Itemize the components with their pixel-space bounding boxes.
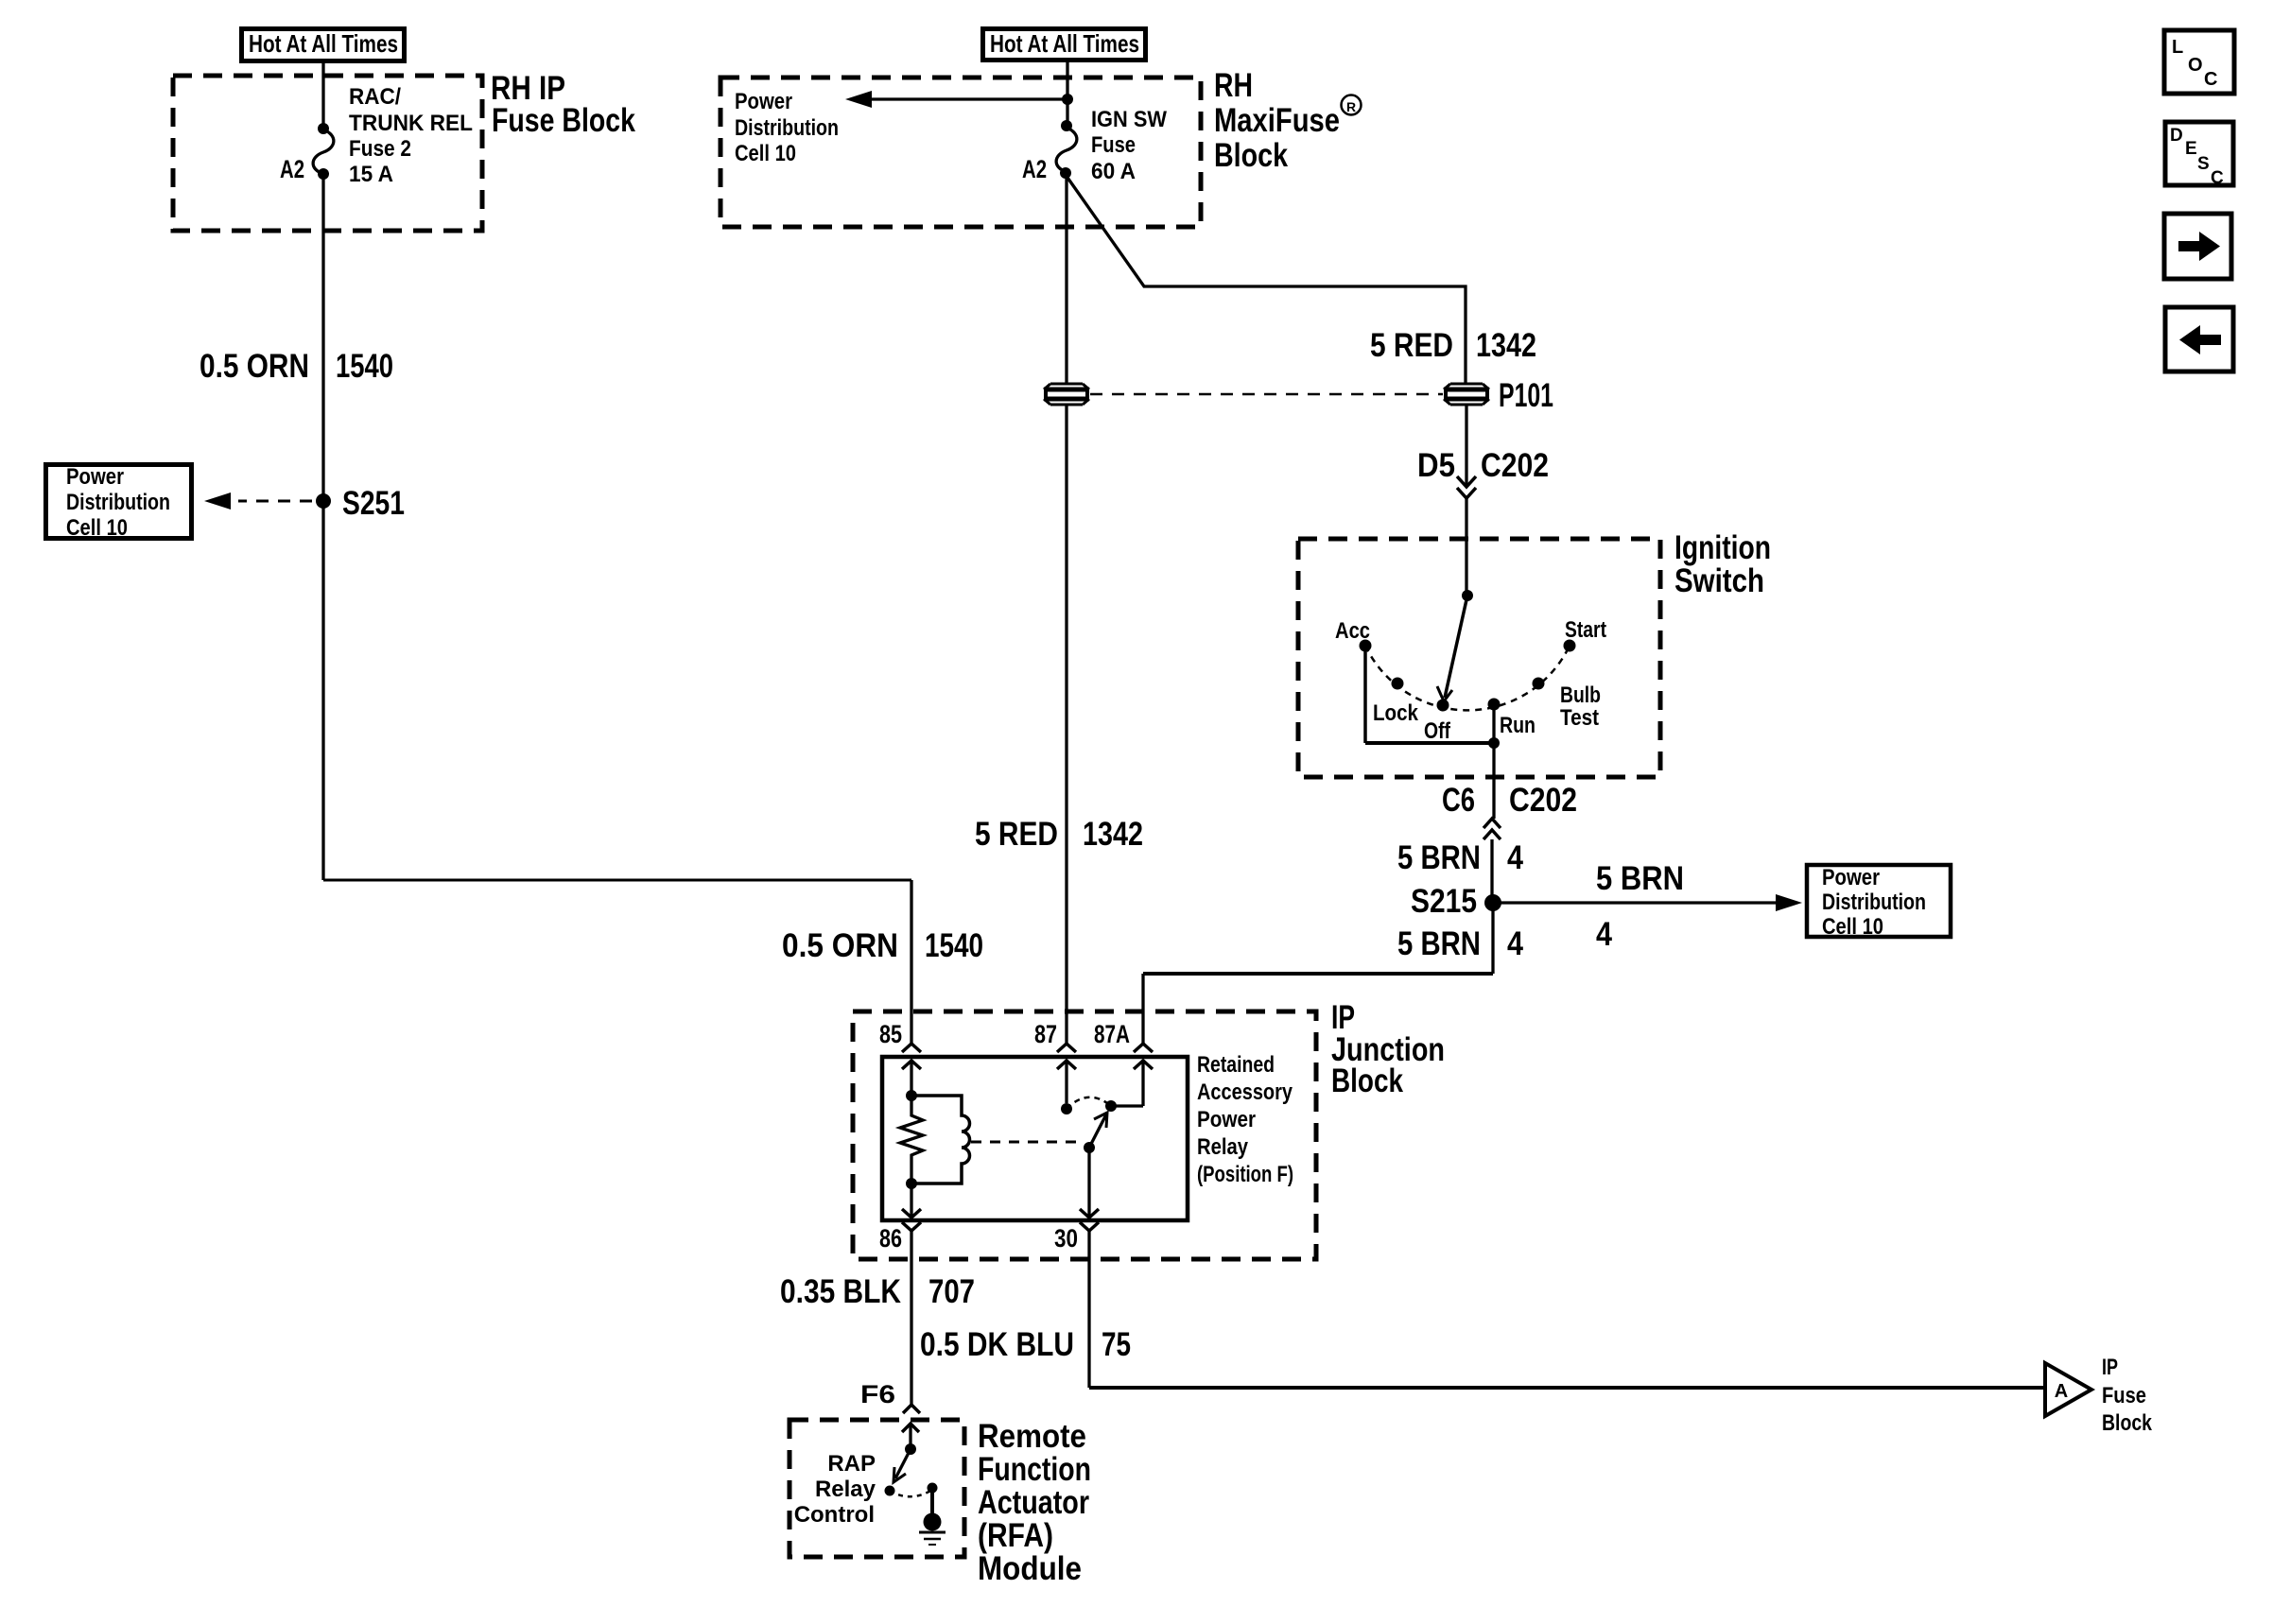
svg-text:Hot At All Times: Hot At All Times xyxy=(990,29,1139,58)
svg-text:IP: IP xyxy=(2102,1355,2118,1380)
svg-text:Bulb: Bulb xyxy=(1560,682,1601,708)
svg-text:707: 707 xyxy=(928,1273,975,1310)
svg-text:60 A: 60 A xyxy=(1091,159,1136,184)
svg-text:A2: A2 xyxy=(280,155,304,183)
svg-text:S215: S215 xyxy=(1411,883,1477,920)
svg-text:Start: Start xyxy=(1565,617,1606,643)
svg-text:RAC/: RAC/ xyxy=(349,84,401,110)
svg-text:Fuse: Fuse xyxy=(1091,132,1136,158)
svg-text:Relay: Relay xyxy=(1197,1134,1249,1160)
svg-text:4: 4 xyxy=(1596,916,1612,953)
svg-text:C: C xyxy=(2211,168,2224,188)
svg-text:0.5 DK BLU: 0.5 DK BLU xyxy=(920,1326,1074,1363)
svg-text:Control: Control xyxy=(794,1502,875,1528)
svg-text:S: S xyxy=(2197,154,2210,174)
svg-text:IGN SW: IGN SW xyxy=(1091,107,1167,132)
svg-text:C202: C202 xyxy=(1509,782,1577,819)
svg-text:Switch: Switch xyxy=(1674,562,1764,599)
svg-text:TRUNK REL: TRUNK REL xyxy=(349,111,473,136)
svg-text:0.35 BLK: 0.35 BLK xyxy=(780,1273,901,1310)
svg-text:Distribution: Distribution xyxy=(735,115,839,141)
svg-text:Hot At All Times: Hot At All Times xyxy=(249,29,398,58)
svg-text:F6: F6 xyxy=(860,1380,895,1408)
svg-text:4: 4 xyxy=(1507,925,1523,962)
svg-text:O: O xyxy=(2188,55,2203,76)
svg-text:E: E xyxy=(2185,139,2197,159)
svg-text:Relay: Relay xyxy=(815,1477,876,1502)
svg-text:Distribution: Distribution xyxy=(66,490,170,515)
svg-text:Cell 10: Cell 10 xyxy=(1822,914,1883,940)
svg-text:(RFA): (RFA) xyxy=(978,1517,1053,1554)
svg-text:0.5 ORN: 0.5 ORN xyxy=(200,348,309,385)
svg-text:RH: RH xyxy=(1214,67,1253,104)
svg-text:D: D xyxy=(2170,126,2183,146)
svg-text:Run: Run xyxy=(1500,713,1536,738)
svg-text:1342: 1342 xyxy=(1083,816,1143,853)
svg-text:Power: Power xyxy=(66,464,124,490)
svg-text:(Position F): (Position F) xyxy=(1197,1162,1293,1187)
svg-text:C202: C202 xyxy=(1481,447,1549,484)
svg-text:C: C xyxy=(2204,69,2217,90)
svg-text:D5: D5 xyxy=(1417,447,1455,484)
svg-text:87: 87 xyxy=(1034,1020,1057,1048)
svg-text:Accessory: Accessory xyxy=(1197,1080,1293,1105)
svg-text:Fuse: Fuse xyxy=(2102,1383,2146,1408)
svg-text:S251: S251 xyxy=(342,485,405,522)
svg-text:Function: Function xyxy=(978,1451,1091,1488)
svg-text:A: A xyxy=(2055,1381,2068,1402)
svg-text:Retained: Retained xyxy=(1197,1052,1275,1078)
svg-text:5 BRN: 5 BRN xyxy=(1397,839,1481,876)
svg-text:Fuse Block: Fuse Block xyxy=(492,102,635,139)
svg-text:RAP: RAP xyxy=(827,1451,876,1477)
svg-text:0.5 ORN: 0.5 ORN xyxy=(782,927,898,964)
svg-text:Off: Off xyxy=(1424,718,1451,744)
svg-text:Power: Power xyxy=(1197,1107,1256,1132)
svg-text:1342: 1342 xyxy=(1476,327,1536,364)
svg-text:Block: Block xyxy=(1331,1063,1403,1099)
svg-text:Remote: Remote xyxy=(978,1418,1086,1455)
svg-text:Power: Power xyxy=(1822,865,1880,890)
svg-text:Cell 10: Cell 10 xyxy=(735,141,796,166)
svg-text:75: 75 xyxy=(1102,1326,1131,1363)
svg-text:1540: 1540 xyxy=(336,348,393,385)
svg-text:5 RED: 5 RED xyxy=(1370,327,1453,364)
svg-text:1540: 1540 xyxy=(925,927,983,964)
svg-text:Module: Module xyxy=(978,1550,1082,1587)
svg-text:Cell 10: Cell 10 xyxy=(66,515,128,541)
svg-text:P101: P101 xyxy=(1499,377,1553,414)
svg-text:A2: A2 xyxy=(1022,155,1047,183)
svg-text:R: R xyxy=(1346,99,1356,114)
svg-text:Power: Power xyxy=(735,89,792,114)
svg-text:L: L xyxy=(2172,37,2183,58)
svg-text:Actuator: Actuator xyxy=(978,1484,1089,1521)
svg-text:86: 86 xyxy=(879,1224,902,1253)
svg-text:4: 4 xyxy=(1507,839,1523,876)
svg-text:Distribution: Distribution xyxy=(1822,890,1926,915)
svg-text:Test: Test xyxy=(1560,705,1599,731)
svg-text:85: 85 xyxy=(879,1020,902,1048)
svg-text:5 RED: 5 RED xyxy=(975,816,1058,853)
svg-text:Block: Block xyxy=(1214,137,1288,174)
svg-text:Fuse 2: Fuse 2 xyxy=(349,136,411,162)
svg-text:5 BRN: 5 BRN xyxy=(1596,860,1684,897)
svg-text:MaxiFuse: MaxiFuse xyxy=(1214,102,1340,139)
svg-text:87A: 87A xyxy=(1094,1020,1130,1048)
svg-text:30: 30 xyxy=(1054,1224,1078,1253)
svg-text:Block: Block xyxy=(2102,1410,2153,1436)
svg-text:5 BRN: 5 BRN xyxy=(1397,925,1481,962)
svg-text:15 A: 15 A xyxy=(349,162,393,187)
svg-text:Ignition: Ignition xyxy=(1674,529,1771,566)
svg-text:Lock: Lock xyxy=(1373,700,1419,726)
svg-text:C6: C6 xyxy=(1442,782,1475,819)
